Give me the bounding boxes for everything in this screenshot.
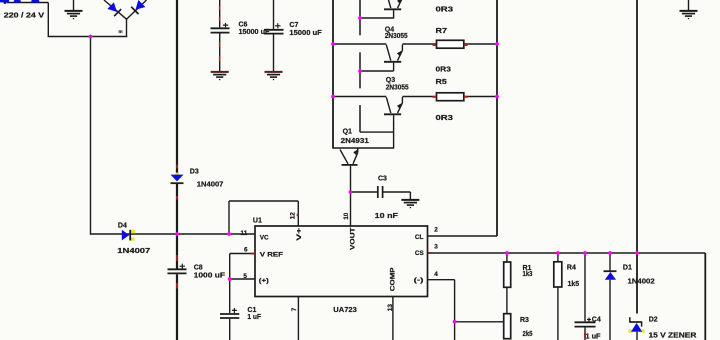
svg-text:COMP: COMP: [390, 267, 397, 292]
svg-text:1k3: 1k3: [523, 271, 533, 278]
svg-text:11: 11: [241, 230, 248, 237]
svg-text:15000 uF: 15000 uF: [239, 29, 271, 36]
svg-text:(-): (-): [414, 277, 424, 284]
svg-text:CL: CL: [415, 234, 424, 241]
svg-text:R4: R4: [567, 265, 576, 272]
svg-text:1000 uF: 1000 uF: [194, 273, 226, 280]
svg-text:2: 2: [434, 227, 438, 234]
svg-text:C6: C6: [239, 22, 248, 29]
svg-text:R3: R3: [520, 317, 529, 324]
svg-text:C8: C8: [194, 264, 203, 271]
svg-text:10 nF: 10 nF: [375, 213, 399, 220]
svg-text:CS: CS: [415, 250, 425, 257]
svg-text:VC: VC: [260, 235, 269, 242]
svg-text:(+): (+): [259, 278, 269, 285]
svg-text:D1: D1: [623, 265, 632, 272]
svg-text:2k5: 2k5: [523, 331, 533, 338]
svg-text:C3: C3: [378, 175, 387, 182]
svg-text:2N3055: 2N3055: [385, 33, 408, 40]
svg-text:VOUT: VOUT: [349, 227, 356, 250]
svg-text:2N3055: 2N3055: [386, 85, 409, 92]
svg-text:Q1: Q1: [343, 129, 352, 136]
svg-text:10: 10: [343, 212, 350, 220]
svg-text:R7: R7: [436, 28, 448, 35]
svg-text:15000 uF: 15000 uF: [289, 30, 322, 37]
svg-text:1N4007: 1N4007: [117, 248, 150, 255]
svg-text:0R3: 0R3: [436, 6, 454, 13]
svg-text:1N4007: 1N4007: [197, 182, 224, 189]
svg-text:D2: D2: [649, 317, 658, 324]
svg-text:V+: V+: [296, 227, 303, 240]
svg-text:D3: D3: [190, 168, 199, 175]
svg-text:Q3: Q3: [386, 77, 395, 84]
svg-text:1 uF: 1 uF: [586, 334, 602, 340]
svg-text:6: 6: [244, 246, 248, 253]
svg-text:U1: U1: [253, 218, 262, 225]
svg-text:V REF: V REF: [260, 251, 283, 258]
svg-text:220 / 24 V: 220 / 24 V: [4, 12, 45, 19]
svg-text:D4: D4: [118, 223, 127, 230]
svg-text:R5: R5: [436, 79, 447, 86]
svg-text:C7: C7: [289, 22, 298, 29]
svg-text:5: 5: [243, 273, 247, 280]
svg-text:C4: C4: [592, 316, 601, 323]
svg-text:15 V ZENER: 15 V ZENER: [649, 332, 697, 339]
svg-text:12: 12: [289, 212, 296, 220]
svg-text:7: 7: [291, 307, 298, 311]
svg-text:1 uF: 1 uF: [247, 314, 261, 321]
svg-text:4: 4: [434, 271, 438, 278]
svg-text:0R3: 0R3: [436, 67, 452, 74]
svg-text:1k5: 1k5: [568, 281, 580, 288]
svg-text:13: 13: [387, 304, 394, 312]
svg-text:m: m: [119, 29, 123, 34]
svg-text:3: 3: [434, 244, 438, 251]
svg-text:2N4931: 2N4931: [341, 138, 369, 145]
svg-text:0R3: 0R3: [436, 115, 454, 122]
svg-text:1N4002: 1N4002: [628, 278, 655, 285]
svg-text:UA723: UA723: [333, 307, 357, 314]
